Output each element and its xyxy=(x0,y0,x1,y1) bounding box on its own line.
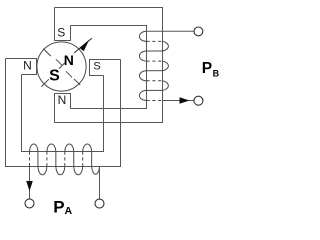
core A inner wire xyxy=(22,75,104,152)
rotor circle xyxy=(37,42,86,91)
wire lead P_B bottom xyxy=(163,100,195,102)
svg-text:B: B xyxy=(213,69,220,79)
core A outer wire xyxy=(6,59,121,167)
terminal P_A right xyxy=(95,199,104,208)
wire lead P_B top xyxy=(147,30,195,32)
bottom pole piece N hook xyxy=(55,94,71,123)
left pole piece N hook xyxy=(6,59,37,75)
coil P_B xyxy=(139,31,168,100)
svg-text:S: S xyxy=(93,61,100,73)
current arrow at P_B lead xyxy=(180,97,190,103)
rotor axis dashed line NE-SW xyxy=(41,63,64,87)
svg-text:N: N xyxy=(58,93,67,107)
terminal P_B top xyxy=(194,27,203,36)
svg-text:N: N xyxy=(64,52,74,68)
top pole piece S hook xyxy=(55,8,71,41)
rotor pointer arrow xyxy=(74,38,92,53)
core B outer wire xyxy=(55,8,163,123)
label P_A xyxy=(53,197,72,217)
svg-text:P: P xyxy=(53,197,64,216)
current arrow at P_A lead xyxy=(26,181,33,191)
wire lead P_A right xyxy=(99,167,101,200)
svg-text:S: S xyxy=(57,26,65,40)
terminal P_B bottom xyxy=(194,96,203,105)
terminal P_A left xyxy=(25,199,34,208)
svg-text:P: P xyxy=(202,60,212,77)
wire lead P_A left xyxy=(29,167,31,199)
right pole piece S hook xyxy=(90,60,121,76)
svg-text:A: A xyxy=(65,205,73,217)
rotor axis dashed line NW-SE xyxy=(43,49,80,85)
coil P_A xyxy=(30,144,100,175)
core B inner wire xyxy=(71,26,147,109)
label P_B xyxy=(202,60,220,78)
svg-text:S: S xyxy=(49,67,60,84)
svg-text:N: N xyxy=(23,59,32,73)
